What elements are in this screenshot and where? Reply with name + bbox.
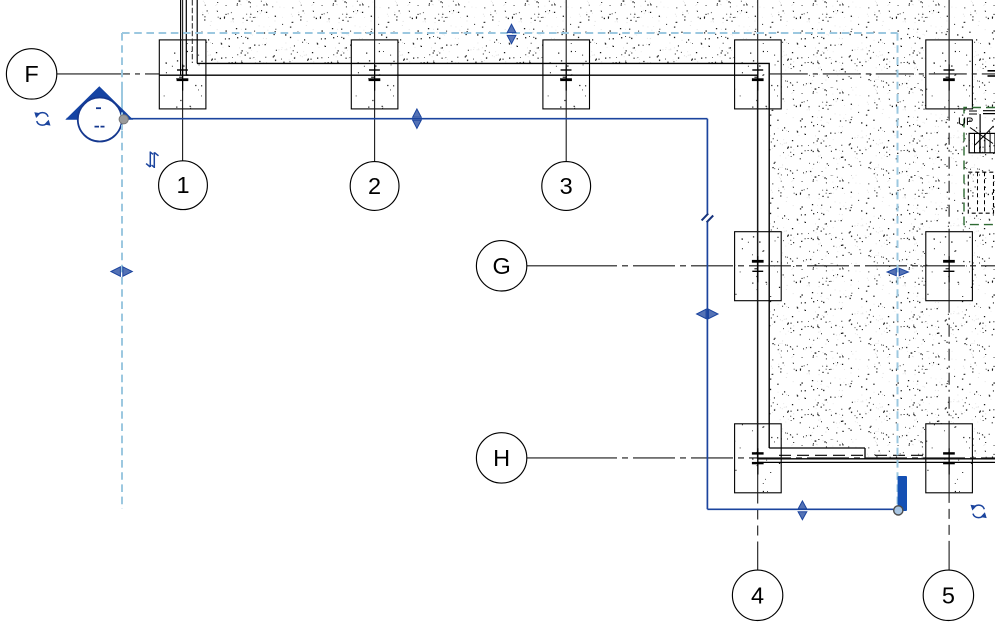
section head detail dashes lower	[95, 126, 105, 128]
grid bubble G	[476, 241, 526, 291]
break control slashes on vertical sketch line	[702, 214, 714, 223]
grid line 2	[374, 0, 376, 161]
column mark at 3F	[560, 64, 572, 90]
grid bubble F	[6, 49, 56, 99]
beam line along H y 462.4	[758, 461, 995, 463]
sketch endpoint drag dot	[894, 506, 903, 515]
wall 4 left face	[757, 75, 759, 459]
section head detail dash upper	[96, 107, 101, 109]
column 5H	[926, 424, 973, 493]
floor slab hatch top band	[197, 0, 995, 63]
column mark at 5G	[943, 256, 955, 282]
section head circle	[78, 98, 122, 142]
stair top nosing double lines	[983, 111, 995, 114]
flip arrows on sketch vertical line	[697, 309, 718, 319]
wall F top face	[197, 62, 770, 64]
grid bubble 2	[350, 162, 399, 211]
svg-text:G: G	[492, 253, 510, 279]
floor slab hatch lower step right of x=865	[865, 448, 995, 459]
wall stub right of column 5F upper line	[988, 70, 995, 72]
flip arrows on section line	[413, 109, 422, 128]
rotate control bottom right	[971, 505, 987, 518]
column mark at 1F	[177, 64, 189, 90]
column mark at 4H	[752, 448, 764, 474]
beam slab edge along H left part	[769, 447, 865, 449]
column 2F	[351, 40, 398, 109]
svg-text:5: 5	[942, 582, 955, 608]
stair risers	[975, 133, 991, 152]
wall 4 right face	[768, 63, 770, 448]
svg-text:2: 2	[368, 173, 381, 199]
column 1F	[159, 40, 206, 109]
wall end drag bar control	[898, 476, 907, 511]
wall section above column 1 inner line	[185, 0, 187, 75]
column 5F	[926, 40, 973, 109]
column mark at 4F	[752, 64, 764, 90]
grid bubble 3	[542, 162, 591, 211]
wall stub right of column 5F lower line	[988, 75, 995, 77]
grid bubble 1	[159, 161, 208, 210]
crop region cyan dashed left edge	[121, 33, 123, 509]
svg-text:UP: UP	[958, 116, 973, 128]
grid line 4	[757, 0, 759, 570]
cycle section tail control	[146, 152, 158, 169]
crop region cyan dashed right edge	[897, 33, 899, 506]
svg-text:H: H	[493, 445, 510, 471]
hidden beam dashed centerline along H left	[779, 454, 864, 456]
grid bubble H	[476, 433, 526, 483]
wall section above column 1 core hatch dashed line	[191, 0, 193, 63]
column mark at 5F	[943, 64, 955, 90]
grid bubble 5	[923, 570, 973, 620]
stair path cross lines	[970, 126, 994, 145]
flip arrows on crop top edge	[507, 24, 516, 44]
selected sketch line bottom	[707, 508, 898, 510]
section head triangle	[67, 87, 133, 119]
flip arrows on crop left edge	[111, 267, 132, 277]
rotate control near section head	[34, 112, 50, 125]
hidden beam dashed centerline along H right	[875, 454, 924, 456]
grid line 5	[948, 0, 950, 570]
beam line along H y 458.8	[758, 458, 995, 460]
column 4F	[735, 40, 782, 109]
stair top nosing mark small	[969, 111, 977, 114]
column 5G	[926, 232, 973, 301]
stair lower dashed shaft box	[968, 172, 993, 213]
stair center rail line	[979, 114, 981, 153]
svg-text:3: 3	[560, 173, 573, 199]
column 4G	[735, 232, 782, 301]
stair riser box	[969, 133, 995, 152]
grid line 3	[565, 0, 567, 161]
wall section above column 1 left face	[180, 0, 182, 75]
grid bubble 4	[732, 570, 782, 620]
floor slab hatch right field	[769, 63, 995, 448]
column mark at 2F	[369, 64, 381, 90]
crop region cyan dashed top edge	[122, 32, 898, 34]
drag dot on section line	[119, 115, 128, 124]
svg-text:4: 4	[751, 582, 764, 608]
column mark at 4G	[752, 256, 764, 282]
svg-text:1: 1	[176, 172, 189, 198]
flip arrows on crop right edge	[887, 268, 908, 276]
wall F bottom face	[159, 74, 758, 76]
grid line F	[57, 73, 995, 75]
svg-text:F: F	[24, 61, 38, 87]
stair lower dashed inner rails	[978, 172, 985, 213]
grid line G	[526, 265, 995, 267]
column 4H	[735, 424, 782, 493]
grid line H	[526, 457, 995, 459]
flip arrows on sketch bottom line	[798, 501, 807, 520]
column mark at 5H	[943, 448, 955, 474]
slab edge line left of top band	[196, 0, 198, 63]
beam slab edge step at x 865	[864, 448, 866, 459]
selected sketch line vertical	[706, 119, 708, 214]
column 3F	[543, 40, 590, 109]
grid line 1	[182, 0, 184, 161]
cyan dashed line over section triangle	[121, 88, 123, 130]
selected sketch line top (section line)	[67, 118, 708, 120]
stair scope green dashed boundary	[964, 108, 995, 225]
